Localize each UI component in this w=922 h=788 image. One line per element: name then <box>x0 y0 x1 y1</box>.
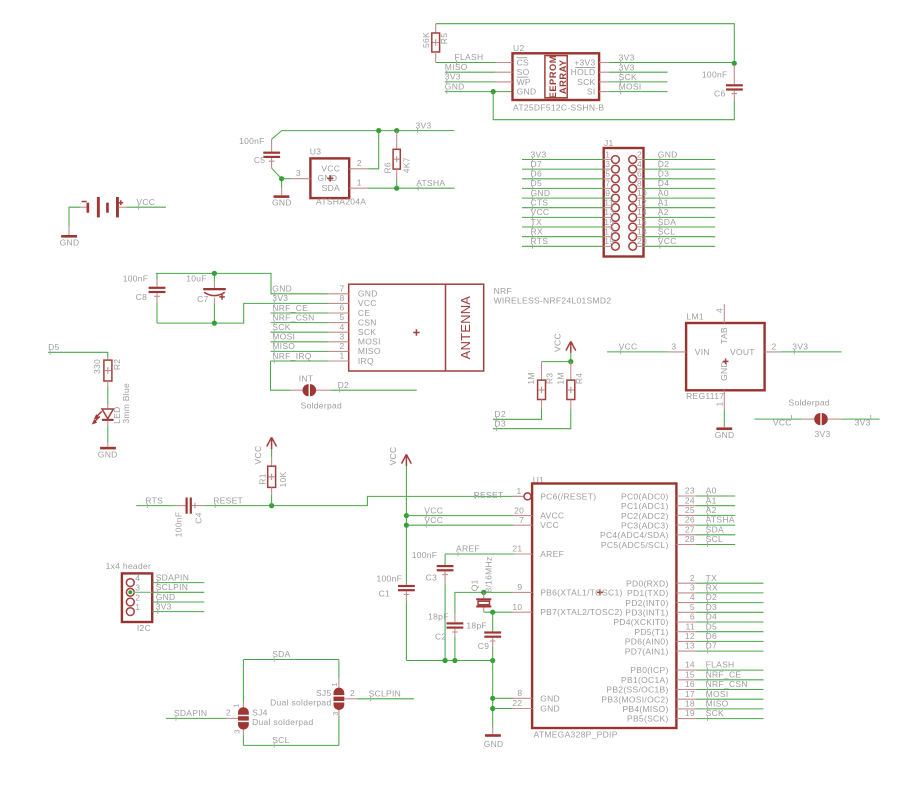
net label 3V3 <box>156 601 172 614</box>
pin 4 NRF <box>329 322 349 332</box>
svg-text:GND: GND <box>98 449 118 459</box>
svg-text:GND: GND <box>719 361 729 381</box>
svg-text:14: 14 <box>637 207 647 217</box>
wire U3 pin3 <box>282 178 292 180</box>
wire SCK <box>609 81 668 83</box>
net label NRF_CSN <box>272 312 314 325</box>
net label D7 <box>531 159 542 172</box>
svg-text:13: 13 <box>685 641 695 651</box>
capacitor C4 100nF <box>174 498 205 538</box>
wire GND8 row <box>493 697 513 699</box>
pin 24 U1 A1 <box>676 495 735 505</box>
wire D6 J1 <box>522 178 612 180</box>
svg-text:3: 3 <box>690 583 695 593</box>
svg-text:NRF_CSN: NRF_CSN <box>272 312 314 322</box>
net label ATSHA <box>706 515 735 528</box>
svg-text:ATSHA204A: ATSHA204A <box>316 196 366 206</box>
svg-text:PC0(ADC0): PC0(ADC0) <box>621 491 669 501</box>
svg-text:RESET: RESET <box>474 490 504 500</box>
wire SJ4 to SCL <box>243 736 339 746</box>
svg-text:GND: GND <box>658 149 678 159</box>
pin 3 LM1 <box>669 341 686 352</box>
svg-text:C2: C2 <box>435 632 446 642</box>
svg-text:1: 1 <box>330 682 339 686</box>
net label VCC <box>531 207 550 220</box>
capacitor C5 100nF <box>239 136 280 168</box>
net label A1 <box>658 198 669 211</box>
pin 21 U1 <box>512 544 532 554</box>
svg-text:FLASH: FLASH <box>455 52 484 62</box>
pin 22 U1 <box>512 698 532 708</box>
svg-text:3: 3 <box>671 341 676 351</box>
svg-text:SDA: SDA <box>658 217 676 227</box>
pin 7 U1 <box>513 515 532 525</box>
pin 16 U1 NRF_CSN <box>676 679 763 689</box>
svg-text:MISO: MISO <box>358 346 381 356</box>
svg-text:15: 15 <box>685 669 695 679</box>
svg-text:PC6(/RESET): PC6(/RESET) <box>540 491 596 501</box>
svg-text:7: 7 <box>519 515 524 525</box>
svg-text:2: 2 <box>690 573 695 583</box>
net label FLASH <box>455 52 484 65</box>
svg-text:GND: GND <box>60 237 80 247</box>
svg-text:19: 19 <box>604 236 614 246</box>
pin 8 NRF <box>329 293 349 303</box>
svg-text:R5: R5 <box>439 33 449 44</box>
pin 8 U1 <box>513 688 532 698</box>
wire LED to GND <box>107 426 109 442</box>
pin 1 LM1 <box>715 390 725 410</box>
pin 1 I2C <box>126 602 140 615</box>
net label D3 <box>494 418 505 431</box>
svg-text:GND: GND <box>358 289 378 299</box>
regulator LM1 REG1117 <box>686 311 765 401</box>
J1 pin circles right column <box>629 156 637 251</box>
wire FLASH <box>436 62 495 64</box>
wire battery minus to GND <box>69 207 80 226</box>
svg-text:U3: U3 <box>310 147 321 157</box>
pin WP U2 <box>495 77 531 87</box>
svg-text:SDA: SDA <box>272 649 290 659</box>
net label MISO <box>272 341 295 354</box>
net label SDA <box>272 649 290 662</box>
net label D2 <box>338 380 349 393</box>
module NRF wireless <box>349 284 612 371</box>
svg-text:8: 8 <box>637 178 642 188</box>
pin 15 U1 NRF_CE <box>676 669 763 679</box>
pin 4 U1 D2 <box>676 592 763 602</box>
svg-text:PB0(ICP): PB0(ICP) <box>630 665 668 675</box>
net label A2 <box>658 207 669 220</box>
svg-text:SCK: SCK <box>577 77 595 87</box>
pin 20 U1 <box>513 505 532 515</box>
net label D2 <box>706 592 717 605</box>
svg-text:VCC: VCC <box>773 418 792 428</box>
crystal Q1 8/16MHz <box>469 556 493 612</box>
svg-text:PB3(MOSI/OC2): PB3(MOSI/OC2) <box>601 694 668 704</box>
svg-text:MISO: MISO <box>706 699 729 709</box>
net label VCC <box>136 197 155 210</box>
junction U3 VCC riser <box>376 128 381 133</box>
wire ATSHA net <box>368 187 455 189</box>
svg-text:J1: J1 <box>604 138 614 148</box>
pin 7 NRF <box>329 283 349 293</box>
wire GND net down and right to C6 <box>493 92 734 120</box>
svg-text:6: 6 <box>637 169 642 179</box>
net label A1 <box>706 495 717 508</box>
wire 3V3 right of U2 <box>609 62 735 64</box>
junction rail C2 <box>452 658 457 663</box>
net label 3V3 <box>792 342 808 355</box>
battery BAT <box>80 197 126 217</box>
svg-text:SCLPIN: SCLPIN <box>156 582 189 592</box>
net label SCK <box>272 322 290 335</box>
wire 3V3 NRF top <box>156 273 329 293</box>
net label GND <box>156 592 176 605</box>
ground battery <box>60 227 80 248</box>
net label SCK <box>706 708 724 721</box>
svg-text:ANTENNA: ANTENNA <box>458 296 473 360</box>
svg-text:18pF: 18pF <box>466 620 487 630</box>
svg-text:Q1: Q1 <box>469 579 479 591</box>
wire VCC J1 <box>522 216 612 218</box>
wire NRF_CSN <box>271 322 329 324</box>
junction AVCC <box>404 513 409 518</box>
svg-text:NRF: NRF <box>494 286 512 296</box>
svg-text:AREF: AREF <box>540 549 564 559</box>
svg-text:12: 12 <box>685 631 695 641</box>
svg-text:TAB: TAB <box>719 327 729 344</box>
IC U3 ATSHA204A <box>310 147 366 207</box>
net label 3V3 <box>619 62 635 75</box>
svg-text:EEPROM: EEPROM <box>548 55 558 98</box>
svg-text:VIN: VIN <box>695 347 710 357</box>
svg-text:2: 2 <box>772 341 777 351</box>
svg-text:VCC: VCC <box>424 505 443 515</box>
svg-text:VCC: VCC <box>619 342 638 352</box>
net label D5 <box>706 621 717 634</box>
svg-text:10K: 10K <box>278 471 288 487</box>
pin SCK U2 <box>577 77 609 87</box>
wire XTAL2 row <box>484 611 513 613</box>
pin 6 NRF <box>329 303 349 313</box>
junction R6 top <box>394 128 399 133</box>
svg-text:3: 3 <box>135 583 140 593</box>
svg-text:3: 3 <box>233 729 242 733</box>
svg-text:MISO: MISO <box>272 341 295 351</box>
svg-text:VCC: VCC <box>253 446 263 465</box>
svg-text:SDA: SDA <box>706 524 724 534</box>
pin 4 LM1 <box>714 304 724 323</box>
svg-text:RTS: RTS <box>531 236 549 246</box>
wire LM1 GND <box>723 410 725 426</box>
svg-text:C9: C9 <box>478 641 489 651</box>
net label 3V3 <box>445 72 461 85</box>
pin 13 U1 D7 <box>676 641 763 651</box>
svg-text:20: 20 <box>514 505 524 515</box>
svg-text:CTS: CTS <box>531 198 549 208</box>
junction C9 top <box>490 610 495 615</box>
pin 2 NRF <box>329 341 349 351</box>
svg-text:U2: U2 <box>513 43 524 53</box>
wire A1 J1 <box>637 207 716 209</box>
svg-text:MOSI: MOSI <box>272 332 295 342</box>
LED D? 3mm Blue <box>92 383 131 426</box>
svg-text:C4: C4 <box>194 512 204 523</box>
J1 pin circles left column <box>612 156 620 251</box>
capacitor C8 100nF <box>123 273 166 323</box>
net label A2 <box>706 505 717 518</box>
svg-text:C6: C6 <box>714 88 725 98</box>
wire AVCC row <box>406 515 513 517</box>
ground LM1 <box>715 426 735 440</box>
net label TX <box>706 573 717 586</box>
net label VCC <box>619 342 638 355</box>
wire SCLPIN from SJ5 <box>357 698 414 700</box>
power VCC arrow R3 R4 <box>553 333 576 353</box>
junction C6 top <box>732 61 737 66</box>
svg-text:ATSHA: ATSHA <box>416 178 445 188</box>
svg-text:GND: GND <box>272 284 292 294</box>
wire 3V3 I2C <box>152 611 204 613</box>
capacitor C9 18pF <box>466 612 501 660</box>
pin 28 U1 SCL <box>676 534 735 544</box>
svg-text:100nF: 100nF <box>376 573 402 583</box>
svg-text:SDAPIN: SDAPIN <box>156 572 189 582</box>
svg-text:VCC: VCC <box>531 207 550 217</box>
svg-text:PB1(OC1A): PB1(OC1A) <box>621 675 669 685</box>
pin HOLD U2 <box>571 67 609 77</box>
svg-text:Dual solderpad: Dual solderpad <box>252 717 313 727</box>
junction U2 GND <box>491 89 496 94</box>
net label FLASH <box>706 660 735 673</box>
svg-text:3: 3 <box>331 711 340 715</box>
net label SCK <box>619 72 637 85</box>
net label RX <box>531 227 543 240</box>
svg-text:NRF_CSN: NRF_CSN <box>706 679 748 689</box>
svg-text:SCK: SCK <box>272 322 290 332</box>
wire NRF_IRQ <box>271 360 329 362</box>
svg-text:5: 5 <box>605 169 610 179</box>
net label RESET <box>213 495 243 508</box>
svg-text:R6: R6 <box>383 162 393 173</box>
svg-text:18: 18 <box>685 699 695 709</box>
svg-text:28: 28 <box>685 534 695 544</box>
pin 19 U1 SCK <box>676 708 763 718</box>
svg-text:100nF: 100nF <box>239 136 265 146</box>
svg-text:4: 4 <box>690 592 695 602</box>
svg-text:SCK: SCK <box>358 327 376 337</box>
net label RTS <box>531 236 549 249</box>
wire D7 J1 <box>522 168 612 170</box>
svg-text:VCC: VCC <box>424 515 443 525</box>
pin +3V3 U2 <box>574 57 609 67</box>
svg-text:SCL: SCL <box>658 227 675 237</box>
svg-text:7: 7 <box>339 283 344 293</box>
svg-text:10: 10 <box>637 188 647 198</box>
resistor R5 <box>421 24 449 63</box>
pin 1 U1 with bubble <box>512 486 531 500</box>
svg-text:1: 1 <box>231 703 240 707</box>
pin 3 I2C <box>126 583 152 596</box>
wire SCL J1 <box>637 236 716 238</box>
svg-text:100nF: 100nF <box>412 550 438 560</box>
wire VCC7 row <box>406 524 513 526</box>
net label D4 <box>706 612 717 625</box>
svg-text:2: 2 <box>226 708 231 718</box>
net label NRF_IRQ <box>272 351 311 364</box>
wire 3V3 second <box>609 71 668 73</box>
connector J1 <box>604 138 644 257</box>
wire D3 from R4 <box>493 409 571 429</box>
svg-text:3: 3 <box>605 159 610 169</box>
pin 23 U1 A0 <box>676 486 735 496</box>
pin 5 NRF <box>329 312 349 322</box>
svg-text:18: 18 <box>637 227 647 237</box>
IC U2 AT25DF512C <box>513 43 605 113</box>
ground C5 <box>272 188 292 207</box>
wire MOSI <box>609 91 668 93</box>
svg-text:NRF_CE: NRF_CE <box>272 303 308 313</box>
wire GND22 row <box>493 708 513 710</box>
svg-text:6: 6 <box>339 303 344 313</box>
svg-text:LM1: LM1 <box>687 311 704 321</box>
svg-text:GND: GND <box>156 592 176 602</box>
net label RTS <box>145 495 163 508</box>
svg-text:GND: GND <box>272 197 292 207</box>
svg-text:PD4(XCKIT0): PD4(XCKIT0) <box>613 617 668 627</box>
wire IRQ to INT solderpad <box>271 361 291 390</box>
svg-text:12: 12 <box>637 198 647 208</box>
svg-text:PB5(SCK): PB5(SCK) <box>627 714 669 724</box>
svg-text:PD7(AIN1): PD7(AIN1) <box>625 646 669 656</box>
svg-text:C8: C8 <box>136 292 147 302</box>
svg-text:16: 16 <box>685 679 695 689</box>
pin 25 U1 A2 <box>676 505 735 515</box>
pin GND U2 <box>517 87 537 97</box>
net label D5 <box>48 342 59 355</box>
wire D5 J1 <box>522 187 612 189</box>
net label GND <box>658 149 678 162</box>
wire D2 J1 <box>637 168 716 170</box>
capacitor C2 18pF <box>428 592 484 660</box>
wire SDA J1 <box>637 226 716 228</box>
svg-text:HOLD: HOLD <box>571 67 596 77</box>
resistor R1 10K <box>257 449 288 506</box>
junction U3 GND <box>279 176 284 181</box>
net label RESET at U1 <box>474 490 504 500</box>
pin CS U2 <box>495 57 529 67</box>
wire RTS J1 <box>522 245 612 247</box>
net label A0 <box>706 486 717 499</box>
capacitor C1 100nF <box>376 573 414 660</box>
junction C7 top <box>212 271 217 276</box>
svg-text:5: 5 <box>339 312 344 322</box>
svg-text:1: 1 <box>357 178 362 188</box>
svg-text:ARRAY: ARRAY <box>558 59 568 94</box>
svg-text:11: 11 <box>604 198 613 208</box>
svg-text:22: 22 <box>512 698 522 708</box>
net label SCLPIN <box>369 689 402 702</box>
svg-text:VCC: VCC <box>553 333 563 352</box>
svg-text:8: 8 <box>517 688 522 698</box>
net label VCC <box>424 505 443 518</box>
svg-text:I2C: I2C <box>137 623 151 633</box>
svg-text:MOSI: MOSI <box>706 689 729 699</box>
wire MISO <box>445 71 495 73</box>
net label D3 <box>706 602 717 615</box>
svg-text:3: 3 <box>339 331 344 341</box>
svg-text:R4: R4 <box>574 373 584 384</box>
svg-text:23: 23 <box>685 486 695 496</box>
power VCC arrow main <box>388 447 411 466</box>
net label NRF_CSN <box>706 679 748 692</box>
solder jumper SJ5 <box>270 678 357 716</box>
svg-text:1: 1 <box>715 401 725 406</box>
wire NRF GND rail bottom <box>157 303 329 323</box>
svg-text:1: 1 <box>605 149 610 159</box>
svg-text:Dual solderpad: Dual solderpad <box>270 697 331 707</box>
svg-text:PC2(ADC2): PC2(ADC2) <box>621 511 669 521</box>
svg-text:1M: 1M <box>555 372 565 384</box>
junction GND22 <box>490 706 495 711</box>
pin 5 U1 D3 <box>676 602 763 612</box>
svg-text:1: 1 <box>516 486 521 496</box>
net label GND <box>272 284 292 297</box>
wire SDAPIN to SJ4 <box>166 717 227 719</box>
wire R2 to LED <box>107 387 109 405</box>
svg-text:MOSI: MOSI <box>358 337 381 347</box>
svg-text:27: 27 <box>685 524 695 534</box>
wire top loop R5 to C6 <box>436 24 735 64</box>
IC U1 ATMEGA328P <box>532 475 676 739</box>
wire RTS <box>136 505 175 507</box>
wire VCC from battery <box>126 206 165 208</box>
wire XTAL1 row <box>484 591 513 593</box>
svg-text:GND: GND <box>445 81 465 91</box>
svg-text:SDAPIN: SDAPIN <box>174 708 207 718</box>
net label D6 <box>531 169 542 182</box>
wire A2 J1 <box>637 216 716 218</box>
net label SDA <box>658 217 676 230</box>
junction VCC7 <box>404 523 409 528</box>
svg-text:330: 330 <box>92 359 102 374</box>
svg-text:R3: R3 <box>545 373 555 384</box>
svg-text:9: 9 <box>517 582 522 592</box>
net label RX <box>706 583 718 596</box>
net label 3V3 <box>416 120 432 133</box>
svg-text:9: 9 <box>605 188 610 198</box>
wire NRF_CE <box>271 312 329 314</box>
svg-text:REG1117: REG1117 <box>686 391 724 401</box>
wire GND J1 right row1 <box>637 159 716 161</box>
net label D7 <box>706 641 717 654</box>
svg-text:PD6(AIN0): PD6(AIN0) <box>625 637 669 647</box>
wire SDA to SJ5 <box>338 660 340 679</box>
wire U3 VCC to 3V3 <box>368 131 378 169</box>
svg-text:SCL: SCL <box>706 534 723 544</box>
pin 4 I2C <box>126 573 140 586</box>
pin 2 LM1 <box>765 341 781 352</box>
pin 2 U1 TX <box>676 573 763 583</box>
svg-text:+3V3: +3V3 <box>574 57 595 67</box>
net label CTS <box>531 198 549 211</box>
svg-text:SCL: SCL <box>272 735 289 745</box>
svg-text:4: 4 <box>637 159 642 169</box>
pin 1 NRF <box>329 351 349 361</box>
junction GND8 <box>490 696 495 701</box>
svg-text:14: 14 <box>685 660 695 670</box>
